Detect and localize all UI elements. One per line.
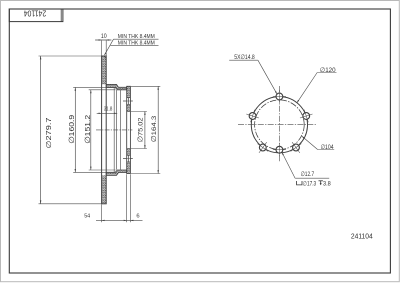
svg-text:3.8: 3.8 <box>323 181 331 187</box>
svg-text:∅151.2: ∅151.2 <box>83 115 92 144</box>
svg-text:∅12.7: ∅12.7 <box>301 171 315 178</box>
svg-text:∅279.7: ∅279.7 <box>46 117 53 148</box>
svg-text:54: 54 <box>84 213 91 219</box>
svg-text:∅75.02: ∅75.02 <box>138 117 145 142</box>
svg-text:∅160.9: ∅160.9 <box>67 115 76 144</box>
svg-text:∅17.3: ∅17.3 <box>303 180 317 187</box>
svg-text:6: 6 <box>136 214 139 220</box>
svg-text:∅104: ∅104 <box>321 144 334 151</box>
svg-text:10: 10 <box>101 33 107 40</box>
svg-text:31.8: 31.8 <box>104 106 113 112</box>
svg-text:∅120: ∅120 <box>320 67 336 74</box>
svg-text:241104: 241104 <box>351 232 373 241</box>
svg-text:241104: 241104 <box>24 9 47 19</box>
svg-text:∅164.3: ∅164.3 <box>151 116 158 143</box>
